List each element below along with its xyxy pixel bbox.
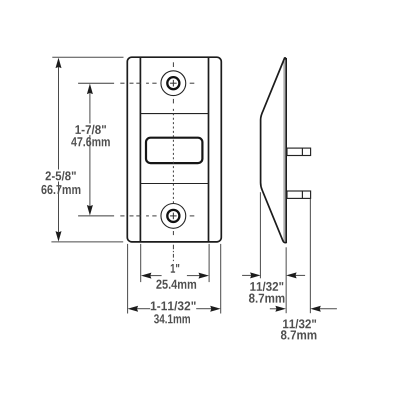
top pin: [287, 148, 311, 155]
label 8.7mm upper: [249, 294, 285, 303]
label 66.7mm: [41, 185, 80, 194]
arrow left-pointing at wedge right: [286, 272, 297, 278]
wedge right edge: [285, 58, 287, 243]
arrow down 2-5/8: [56, 231, 62, 242]
label 11/32" lower: [283, 319, 316, 328]
arrow right 1 inch: [199, 273, 210, 279]
extension line plate bottom-left: [127, 244, 129, 314]
bottom hole centerline: [78, 215, 194, 217]
extension line plate bottom-right: [220, 244, 222, 314]
dimension 2-5/8 line: [58, 67, 60, 233]
label 25.4mm: [156, 280, 196, 289]
label 1 inch: [171, 264, 180, 273]
label 1-7/8": [76, 125, 107, 134]
arrow right 1-11/32: [210, 306, 221, 312]
top hole centerline: [78, 82, 194, 84]
label 8.7mm lower: [281, 330, 317, 339]
arrow right-pointing at pin base: [275, 306, 286, 312]
arrow left 1 inch: [141, 273, 152, 279]
dim 11/32 pin length: tails: [270, 308, 337, 310]
dimension 1-7/8 line: [89, 93, 91, 206]
dimension 1 inch: [150, 275, 200, 277]
lower face line: [140, 183, 208, 185]
bottom screw hole: [161, 204, 186, 229]
plate inner left edge: [139, 58, 141, 242]
label 34.1mm: [154, 314, 190, 323]
extension wedge right: [285, 247, 287, 313]
extension line inner-left: [140, 244, 142, 282]
plate outer body: [127, 57, 221, 242]
extension line inner-right: [208, 244, 210, 282]
upper face line: [140, 113, 208, 115]
extension line plate bottom: [51, 241, 123, 243]
label 2-5/8": [46, 171, 76, 180]
extension line plate top: [52, 56, 123, 58]
top screw hole: [161, 71, 186, 96]
center slot: [146, 138, 202, 163]
extension pin end: [309, 199, 311, 313]
wedge left profile: [261, 58, 287, 243]
label 47.6mm: [71, 137, 110, 146]
dimension 1-11/32: [137, 308, 212, 310]
arrow right-pointing at wedge left: [250, 272, 261, 278]
arrow left 1-11/32: [128, 306, 139, 312]
arrow down 1-7/8: [87, 205, 93, 216]
plate inner right edge: [208, 58, 210, 242]
arrow up 2-5/8: [56, 58, 62, 69]
arrow up 1-7/8: [87, 84, 93, 95]
label 11/32" upper: [250, 282, 283, 291]
arrow left-pointing at pin end: [310, 306, 321, 312]
bottom pin: [287, 191, 311, 198]
label 1-11/32": [151, 301, 196, 310]
extension wedge left: [259, 192, 261, 278]
wedge inner face line: [283, 59, 285, 242]
dim 11/32 thickness: tails: [242, 274, 305, 276]
vertical centerline: [172, 62, 174, 261]
